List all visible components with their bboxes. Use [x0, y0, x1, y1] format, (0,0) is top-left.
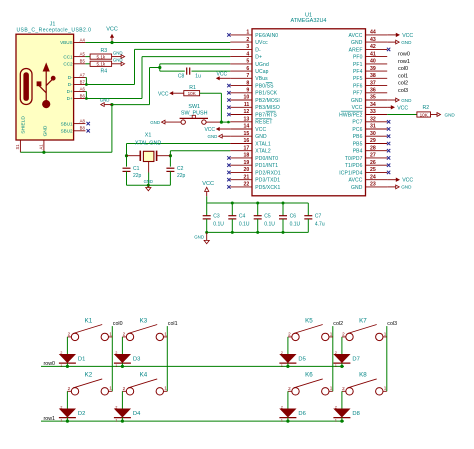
- svg-text:PC7: PC7: [352, 120, 362, 126]
- svg-text:D-: D-: [68, 82, 73, 87]
- C5: [254, 216, 262, 219]
- U1 pin 7 VBus: [230, 73, 268, 82]
- diode D8: [333, 405, 359, 422]
- svg-text:D1: D1: [78, 357, 85, 363]
- svg-text:GND: GND: [113, 58, 123, 63]
- svg-text:R1: R1: [189, 85, 196, 91]
- svg-text:1: 1: [164, 386, 167, 391]
- svg-text:1: 1: [109, 386, 112, 391]
- U1 pin 11 PB3/MISO: [227, 102, 280, 111]
- svg-text:VCC: VCC: [202, 181, 214, 187]
- U1 pin 9 PB1/SCK: [227, 88, 278, 97]
- svg-text:1u: 1u: [195, 74, 201, 80]
- svg-text:C7: C7: [315, 213, 322, 219]
- svg-text:21: 21: [244, 174, 250, 180]
- svg-text:2: 2: [60, 405, 62, 409]
- svg-text:1: 1: [109, 331, 112, 336]
- svg-text:PD3/TXD1: PD3/TXD1: [255, 178, 280, 184]
- svg-text:B6: B6: [80, 93, 86, 98]
- U1 pin 37 PF6: [353, 80, 387, 89]
- wire K4 pin2 to D4: [121, 391, 123, 409]
- wire gnd riser: [112, 68, 160, 153]
- svg-text:D+: D+: [255, 55, 262, 61]
- svg-text:K8: K8: [359, 372, 367, 379]
- U1 pin 31 PC6: [352, 124, 390, 133]
- svg-text:1: 1: [330, 386, 333, 391]
- power VCC at pin44: [387, 33, 413, 39]
- overline PB0/SS: [266, 81, 273, 83]
- svg-text:UCap: UCap: [255, 69, 268, 75]
- svg-text:CC1: CC1: [63, 54, 73, 59]
- svg-text:PB3/MISO: PB3/MISO: [255, 105, 280, 111]
- svg-text:22p: 22p: [177, 173, 186, 179]
- svg-text:VBUS: VBUS: [60, 40, 73, 45]
- svg-text:B7: B7: [80, 79, 86, 84]
- resistor R4 5.1k: [90, 61, 112, 66]
- svg-text:17: 17: [244, 145, 250, 151]
- power GND at R4: [112, 58, 125, 66]
- svg-text:SBU1: SBU1: [61, 121, 73, 126]
- svg-text:42: 42: [370, 44, 376, 50]
- svg-text:35: 35: [370, 95, 376, 101]
- capacitor C3 0.1U: [203, 203, 225, 232]
- power VCC at pin34: [387, 105, 408, 111]
- connector J1 USB_C_Receptacle_USB2.0: [16, 22, 91, 141]
- C6: [279, 216, 287, 219]
- svg-text:RESET: RESET: [255, 120, 272, 126]
- svg-text:0.1U: 0.1U: [264, 221, 275, 227]
- power GND at USB UGnd net: [100, 98, 112, 107]
- junction VBUS/VCC1: [110, 41, 113, 44]
- svg-text:1: 1: [335, 364, 337, 368]
- switch K2: [67, 372, 112, 395]
- svg-text:29: 29: [370, 138, 376, 144]
- svg-text:1: 1: [335, 418, 337, 422]
- svg-text:VCC: VCC: [397, 105, 408, 111]
- U1 pin 43 GND: [351, 37, 387, 46]
- svg-text:19: 19: [244, 160, 250, 166]
- svg-text:HWB/PE2: HWB/PE2: [339, 112, 362, 118]
- wire D3 to row0: [121, 363, 123, 366]
- U1 pin 41 PF0: [353, 51, 387, 60]
- U1 pin 23 GND: [351, 182, 387, 191]
- svg-text:GND: GND: [351, 98, 363, 104]
- svg-text:A4: A4: [80, 37, 86, 42]
- wire col2 column: [332, 326, 334, 391]
- svg-text:30: 30: [370, 131, 376, 137]
- svg-text:B5: B5: [80, 59, 86, 64]
- U1 pin 1 PE6/AIN0: [227, 30, 278, 39]
- wire D4 to row1: [121, 418, 123, 422]
- switch K8: [342, 372, 387, 395]
- svg-text:40: 40: [370, 59, 376, 65]
- diode D5: [279, 351, 305, 368]
- no-connect SBU1: [87, 122, 90, 125]
- svg-text:1: 1: [384, 331, 387, 336]
- svg-text:A6: A6: [80, 86, 86, 91]
- wire J1 shield/gnd run: [20, 151, 112, 153]
- junction J1 gnd: [42, 151, 45, 154]
- svg-text:D-: D-: [255, 47, 261, 53]
- power VCC at R1: [158, 91, 184, 97]
- power GND at R3: [112, 50, 125, 58]
- wire pin33 to R2: [387, 114, 417, 116]
- U1 pin 25 ICP1/PD4: [339, 167, 390, 176]
- svg-text:D7: D7: [352, 357, 359, 363]
- svg-text:D+: D+: [67, 96, 73, 101]
- svg-text:25: 25: [370, 167, 376, 173]
- diode D1: [59, 351, 85, 368]
- overline PB7/RTS: [266, 110, 276, 112]
- U1 pin 27 T0/PD7: [345, 153, 390, 162]
- svg-text:C1: C1: [133, 166, 140, 172]
- svg-text:PB1/SCK: PB1/SCK: [255, 91, 278, 97]
- svg-text:PF6: PF6: [353, 84, 363, 90]
- svg-text:PB5: PB5: [353, 141, 363, 147]
- wire D- to U1 pin3: [86, 49, 230, 84]
- svg-text:1: 1: [330, 331, 333, 336]
- svg-text:2: 2: [115, 405, 117, 409]
- svg-text:24: 24: [370, 174, 376, 180]
- svg-text:2: 2: [281, 405, 283, 409]
- J1 pin A1 GND: [39, 140, 44, 152]
- junction D-: [85, 83, 88, 86]
- C3: [203, 216, 211, 219]
- svg-text:A1: A1: [39, 144, 44, 150]
- svg-text:PF1: PF1: [353, 62, 363, 68]
- svg-text:row1: row1: [44, 416, 56, 422]
- wire K7 pin2 to D7: [341, 337, 343, 355]
- svg-text:K1: K1: [85, 317, 93, 324]
- svg-text:VCC: VCC: [402, 178, 413, 184]
- svg-text:36: 36: [370, 88, 376, 94]
- svg-text:GND: GND: [445, 112, 456, 117]
- svg-text:D2: D2: [78, 411, 85, 417]
- U1 pin 32 PC7: [352, 117, 390, 126]
- U1 pin 28 PB4: [353, 145, 391, 154]
- svg-text:20: 20: [244, 167, 250, 173]
- switch K1: [67, 317, 112, 340]
- svg-text:34: 34: [370, 102, 376, 108]
- svg-text:GND: GND: [113, 50, 123, 55]
- power GND at cap rail: [204, 232, 209, 243]
- svg-text:31: 31: [370, 124, 376, 130]
- J1 pin B5 CC2: [63, 59, 85, 67]
- wire D2 to row1: [66, 418, 68, 422]
- diode D7: [333, 351, 359, 368]
- svg-text:GND: GND: [208, 134, 218, 139]
- svg-text:VCC: VCC: [352, 105, 363, 111]
- power VCC at pin24: [387, 178, 413, 184]
- svg-text:GND: GND: [401, 98, 412, 103]
- svg-text:C2: C2: [177, 166, 184, 172]
- svg-text:2: 2: [60, 351, 62, 355]
- power VCC at decoupling rail: [202, 181, 214, 196]
- svg-text:T0/PD7: T0/PD7: [345, 156, 363, 162]
- wire K8 pin2 to D8: [341, 391, 343, 409]
- capacitor C4 0.1U: [228, 203, 250, 232]
- svg-text:row0: row0: [398, 52, 410, 58]
- svg-text:2: 2: [288, 332, 291, 337]
- C7: [304, 216, 312, 219]
- svg-text:UVcc: UVcc: [255, 40, 268, 46]
- junction D3/row0: [121, 365, 124, 368]
- U1 pin 10 PB2/MOSI: [227, 95, 280, 104]
- switch K3: [122, 317, 167, 340]
- svg-text:col3: col3: [398, 88, 408, 94]
- svg-text:B8: B8: [80, 126, 86, 131]
- U1 pin 20 PD2/RXD1: [227, 167, 281, 176]
- svg-text:0.1U: 0.1U: [213, 221, 224, 227]
- svg-text:2: 2: [342, 386, 345, 391]
- U1 pin 22 PD5/XCK1: [227, 182, 280, 191]
- junction D4/row1: [121, 420, 124, 423]
- wire K2 pin2 to D2: [66, 391, 68, 409]
- capacitor C2 22p: [166, 166, 185, 179]
- svg-text:1: 1: [281, 418, 283, 422]
- svg-text:D8: D8: [352, 411, 359, 417]
- svg-text:1: 1: [164, 331, 167, 336]
- switch SW1 SW_PUSH: [180, 104, 222, 124]
- svg-text:CC2: CC2: [63, 62, 73, 67]
- svg-text:2: 2: [335, 351, 337, 355]
- capacitor C1 22p: [123, 166, 142, 179]
- svg-text:col0: col0: [113, 321, 123, 327]
- junction RESET net 2: [227, 121, 230, 124]
- svg-text:K6: K6: [305, 372, 313, 379]
- svg-text:GND: GND: [194, 235, 204, 240]
- svg-text:4.7u: 4.7u: [315, 221, 325, 227]
- svg-text:10: 10: [244, 95, 250, 101]
- wire D1 to row0: [66, 363, 68, 366]
- wire cap top rail: [207, 202, 309, 204]
- svg-text:28: 28: [370, 145, 376, 151]
- svg-text:col1: col1: [398, 73, 408, 79]
- wire D6 to row1: [287, 418, 289, 422]
- U1 pin 13 RESET: [230, 117, 272, 126]
- wire UCap row: [160, 70, 231, 72]
- svg-text:2: 2: [123, 332, 126, 337]
- switch K6: [288, 372, 333, 395]
- svg-text:ATMEGA32U4: ATMEGA32U4: [291, 18, 327, 24]
- capacitor C5 0.1U: [254, 203, 276, 232]
- wire D5 to row0: [287, 363, 289, 366]
- svg-text:0.1U: 0.1U: [239, 221, 250, 227]
- svg-text:PC6: PC6: [352, 127, 362, 133]
- junction D6/row1: [286, 420, 289, 423]
- svg-text:XTAL2: XTAL2: [255, 149, 271, 155]
- svg-text:37: 37: [370, 80, 376, 86]
- junction RESET net: [220, 121, 223, 124]
- svg-text:1: 1: [60, 418, 62, 422]
- svg-text:GND: GND: [255, 134, 267, 140]
- svg-text:2: 2: [335, 405, 337, 409]
- svg-text:PD2/RXD1: PD2/RXD1: [255, 170, 281, 176]
- svg-text:2: 2: [115, 351, 117, 355]
- svg-text:14: 14: [244, 124, 250, 130]
- diode D2: [59, 405, 85, 422]
- svg-text:GND: GND: [351, 185, 363, 191]
- wire cap bottom rail: [207, 231, 309, 233]
- svg-text:GND: GND: [401, 40, 412, 45]
- wire UGnd fork: [160, 64, 231, 71]
- svg-text:PB4: PB4: [353, 149, 363, 155]
- J1 pin A8 SBU1: [61, 118, 86, 126]
- switch K4: [122, 372, 167, 395]
- svg-text:col0: col0: [398, 66, 408, 72]
- junction D1/row0: [66, 365, 69, 368]
- svg-text:C8: C8: [178, 74, 185, 80]
- svg-text:0.1U: 0.1U: [290, 221, 301, 227]
- svg-text:D5: D5: [298, 357, 305, 363]
- svg-text:AREF: AREF: [349, 47, 363, 53]
- overline HWB/PE2: [341, 110, 363, 112]
- svg-text:VCC: VCC: [204, 127, 215, 133]
- svg-text:27: 27: [370, 153, 376, 159]
- diode D4: [114, 405, 141, 422]
- power GND at pin35: [387, 98, 412, 103]
- svg-text:X1: X1: [145, 133, 152, 139]
- op-amp U1 ATMEGA32U4 body: [252, 13, 366, 196]
- wire D- pair join: [85, 78, 86, 85]
- power GND at crystal: [146, 185, 151, 191]
- svg-text:5.1k: 5.1k: [97, 62, 106, 67]
- switch K7: [342, 317, 387, 340]
- svg-text:VBus: VBus: [255, 76, 268, 82]
- U1 pin 5 UGnd: [230, 59, 269, 68]
- svg-text:PF7: PF7: [353, 91, 363, 97]
- wire XTAL2: [170, 151, 230, 167]
- diode D6: [279, 405, 305, 422]
- svg-text:SBU2: SBU2: [61, 129, 73, 134]
- U1 pin 19 PD1/INT1: [227, 160, 278, 169]
- wire to pin13: [221, 121, 230, 123]
- svg-text:10K: 10K: [188, 91, 197, 96]
- svg-text:22p: 22p: [133, 173, 142, 179]
- overline RESET: [255, 118, 271, 120]
- svg-text:D6: D6: [298, 411, 305, 417]
- J1 pin A5 CC1: [63, 51, 85, 59]
- svg-text:PD5/XCK1: PD5/XCK1: [255, 185, 280, 191]
- svg-text:UGnd: UGnd: [255, 62, 269, 68]
- svg-text:VCC: VCC: [217, 72, 228, 78]
- svg-text:2: 2: [123, 386, 126, 391]
- svg-text:A7: A7: [80, 72, 86, 77]
- svg-text:11: 11: [244, 102, 250, 108]
- svg-text:K2: K2: [85, 372, 93, 379]
- svg-text:22: 22: [244, 182, 250, 188]
- svg-text:PB6: PB6: [353, 134, 363, 140]
- svg-text:VCC: VCC: [158, 91, 169, 97]
- svg-text:PD1/INT1: PD1/INT1: [255, 163, 278, 169]
- J1 pin B8 SBU2: [61, 126, 86, 134]
- svg-text:41: 41: [370, 51, 376, 57]
- capacitor C8 1u: [187, 68, 190, 75]
- wire XTAL1: [127, 144, 231, 167]
- U1 pin 6 UCap: [230, 66, 268, 75]
- svg-text:38: 38: [370, 73, 376, 79]
- wire R1 to RESET: [200, 93, 222, 122]
- wire K5 pin2 to D5: [287, 337, 289, 355]
- U1 pin 38 PF5: [353, 73, 387, 82]
- svg-text:PF5: PF5: [353, 76, 363, 82]
- junction D2/row1: [66, 420, 69, 423]
- switch K5: [288, 317, 333, 340]
- svg-text:13: 13: [244, 117, 250, 123]
- wire row0: [41, 365, 344, 367]
- svg-text:32: 32: [370, 117, 376, 123]
- svg-text:row1: row1: [398, 59, 410, 65]
- svg-text:col2: col2: [333, 321, 343, 327]
- U1 pin 34 VCC: [352, 102, 388, 111]
- svg-text:18: 18: [244, 153, 250, 159]
- wire D+ to U1 pin4: [86, 57, 230, 99]
- svg-text:C5: C5: [264, 213, 271, 219]
- svg-text:SW1: SW1: [188, 104, 200, 110]
- wire col1 column: [166, 326, 168, 391]
- wire D8 to row1: [341, 418, 343, 422]
- U1 pin 4 D+: [230, 51, 262, 60]
- U1 pin 39 PF4: [353, 66, 387, 75]
- svg-text:39: 39: [370, 66, 376, 72]
- power GND at R2: [431, 112, 456, 117]
- svg-text:SHIELD: SHIELD: [20, 116, 26, 134]
- svg-text:2: 2: [246, 37, 249, 43]
- resistor R3 5.1k: [90, 54, 112, 59]
- U1 pin 21 PD3/TXD1: [227, 174, 280, 183]
- J1 pin S1 SHIELD: [15, 140, 20, 152]
- capacitor C1: [123, 168, 131, 171]
- svg-text:GND: GND: [144, 179, 153, 184]
- svg-text:PB2/MOSI: PB2/MOSI: [255, 98, 280, 104]
- U1 pin 26 T1/PD6: [345, 160, 390, 169]
- wire D7 to row0: [341, 363, 343, 366]
- svg-text:1: 1: [246, 30, 249, 36]
- svg-text:10K: 10K: [420, 112, 429, 117]
- svg-text:8: 8: [246, 80, 249, 86]
- junction cap gnd: [205, 231, 208, 234]
- U1 pin 24 AVCC: [348, 174, 387, 183]
- wire col3 column: [386, 326, 388, 391]
- svg-text:GND: GND: [401, 185, 412, 190]
- svg-text:1: 1: [60, 364, 62, 368]
- U1 pin 40 PF1: [353, 59, 387, 68]
- wire row1: [41, 420, 344, 422]
- power GND at pin43: [387, 40, 412, 45]
- svg-text:PE6/AIN0: PE6/AIN0: [255, 33, 278, 39]
- svg-text:44: 44: [370, 30, 376, 36]
- svg-text:1: 1: [115, 364, 117, 368]
- junction D+: [85, 97, 88, 100]
- svg-text:3: 3: [246, 44, 249, 50]
- power GND at pin15: [208, 134, 231, 139]
- svg-text:GND: GND: [150, 120, 160, 125]
- U1 pin 35 GND: [351, 95, 387, 104]
- svg-text:43: 43: [370, 37, 376, 43]
- svg-text:D3: D3: [133, 357, 140, 363]
- svg-text:15: 15: [244, 131, 250, 137]
- power VCC at pin7 VBus: [216, 72, 231, 81]
- junction crystal left: [125, 154, 128, 157]
- svg-text:R4: R4: [100, 68, 107, 74]
- svg-text:VCC: VCC: [106, 27, 118, 33]
- U1 pin 18 PD0/INT0: [227, 153, 278, 162]
- junction D5/row0: [286, 365, 289, 368]
- resistor R1 10K: [184, 91, 200, 96]
- J1 pin A6 D+: [67, 86, 86, 94]
- wire D+ pair join: [85, 92, 86, 99]
- svg-text:col2: col2: [398, 81, 408, 87]
